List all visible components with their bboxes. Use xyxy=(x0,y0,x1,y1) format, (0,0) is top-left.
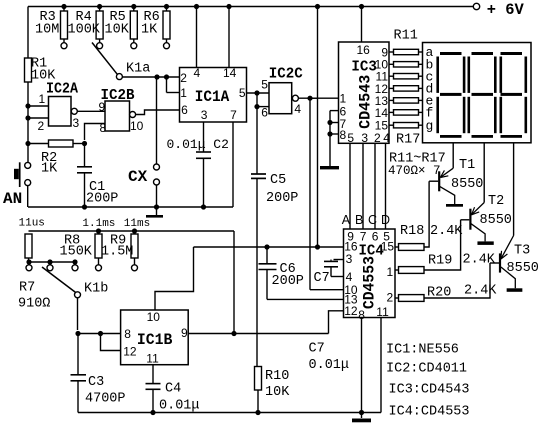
svg-text:IC1B: IC1B xyxy=(137,331,173,349)
svg-text:IC1:NE556: IC1:NE556 xyxy=(386,343,459,358)
svg-text:4700P: 4700P xyxy=(85,392,126,407)
svg-text:K1a: K1a xyxy=(126,62,150,77)
svg-text:8550: 8550 xyxy=(451,177,483,192)
svg-text:A: A xyxy=(342,213,351,227)
svg-text:IC3: IC3 xyxy=(351,59,377,76)
svg-text:8550: 8550 xyxy=(507,261,539,276)
svg-text:9: 9 xyxy=(181,326,188,340)
svg-text:0.01μ: 0.01μ xyxy=(159,399,200,414)
svg-text:11: 11 xyxy=(146,352,159,366)
svg-text:IC3:CD4543: IC3:CD4543 xyxy=(389,383,470,398)
svg-text:3: 3 xyxy=(361,131,368,145)
svg-text:C7: C7 xyxy=(309,342,325,357)
svg-text:15: 15 xyxy=(375,119,389,133)
svg-text:T1: T1 xyxy=(459,158,475,173)
svg-text:IC2A: IC2A xyxy=(46,81,78,98)
svg-text:1.1ms: 1.1ms xyxy=(82,218,115,230)
svg-text:2: 2 xyxy=(387,290,394,304)
svg-text:IC2C: IC2C xyxy=(269,66,303,83)
svg-text:2.4K: 2.4K xyxy=(430,224,463,239)
svg-text:470Ω× 7: 470Ω× 7 xyxy=(388,164,441,178)
svg-text:5: 5 xyxy=(261,78,268,92)
svg-text:2: 2 xyxy=(38,119,45,133)
svg-text:1: 1 xyxy=(340,92,347,106)
svg-text:5: 5 xyxy=(347,131,354,145)
svg-text:11us: 11us xyxy=(19,217,45,229)
svg-text:1K: 1K xyxy=(41,162,58,177)
svg-text:g: g xyxy=(426,118,434,133)
svg-text:6: 6 xyxy=(261,106,268,120)
svg-text:10: 10 xyxy=(147,310,161,324)
svg-text:15: 15 xyxy=(381,239,395,253)
svg-text:R10: R10 xyxy=(265,369,289,384)
svg-text:1: 1 xyxy=(387,265,394,279)
svg-text:C5: C5 xyxy=(270,173,286,188)
svg-text:2: 2 xyxy=(180,71,187,85)
svg-text:C: C xyxy=(368,213,377,227)
svg-text:10K: 10K xyxy=(265,385,290,400)
svg-text:CD4543: CD4543 xyxy=(357,75,375,129)
svg-text:10K: 10K xyxy=(105,23,130,38)
svg-text:910Ω: 910Ω xyxy=(18,297,50,312)
svg-text:10: 10 xyxy=(130,119,144,133)
svg-text:1.5M: 1.5M xyxy=(101,245,133,260)
svg-text:R19: R19 xyxy=(428,254,452,269)
svg-text:C7: C7 xyxy=(314,271,330,286)
svg-text:1: 1 xyxy=(39,92,46,106)
svg-text:2.4K: 2.4K xyxy=(463,253,496,268)
svg-text:R18: R18 xyxy=(400,224,424,239)
svg-text:0.01μ C2: 0.01μ C2 xyxy=(167,137,229,152)
svg-text:C3: C3 xyxy=(88,375,104,390)
svg-text:3: 3 xyxy=(73,116,80,130)
svg-text:7: 7 xyxy=(360,230,367,244)
svg-text:4: 4 xyxy=(383,131,390,145)
svg-text:4: 4 xyxy=(194,66,201,80)
svg-text:3: 3 xyxy=(346,252,353,266)
svg-text:8: 8 xyxy=(340,128,347,142)
svg-text:R17: R17 xyxy=(396,133,420,148)
svg-text:CX: CX xyxy=(128,168,148,186)
svg-text:R7: R7 xyxy=(19,281,35,296)
svg-text:IC4:CD4553: IC4:CD4553 xyxy=(389,405,470,420)
svg-text:16: 16 xyxy=(357,43,371,57)
svg-text:B: B xyxy=(355,213,363,227)
svg-text:2.4K: 2.4K xyxy=(464,284,497,299)
svg-text:T2: T2 xyxy=(488,194,504,209)
svg-text:11: 11 xyxy=(376,305,389,319)
svg-text:CD4553: CD4553 xyxy=(361,256,379,309)
svg-text:1K: 1K xyxy=(141,23,158,38)
svg-text:K1b: K1b xyxy=(84,282,108,297)
svg-text:200P: 200P xyxy=(272,274,304,289)
svg-text:6: 6 xyxy=(181,103,188,117)
svg-text:9: 9 xyxy=(99,100,106,114)
svg-text:5: 5 xyxy=(239,86,246,100)
svg-text:12: 12 xyxy=(123,345,137,359)
svg-text:100K: 100K xyxy=(68,23,101,38)
svg-text:IC2:CD4011: IC2:CD4011 xyxy=(386,362,467,377)
svg-text:10M: 10M xyxy=(35,23,59,38)
svg-text:2: 2 xyxy=(374,131,381,145)
svg-text:8550: 8550 xyxy=(480,213,512,228)
svg-text:3: 3 xyxy=(201,108,208,122)
svg-text:7: 7 xyxy=(230,108,237,122)
svg-text:11ms: 11ms xyxy=(124,218,150,230)
svg-text:C4: C4 xyxy=(165,382,181,397)
svg-text:AN: AN xyxy=(3,190,22,208)
svg-text:12: 12 xyxy=(344,304,358,318)
svg-text:4: 4 xyxy=(294,102,301,116)
svg-text:+ 6V: + 6V xyxy=(487,1,524,19)
svg-text:R20: R20 xyxy=(427,286,451,301)
svg-text:IC2B: IC2B xyxy=(101,87,135,104)
svg-text:8: 8 xyxy=(124,327,131,341)
svg-text:150K: 150K xyxy=(60,245,93,260)
svg-text:200P: 200P xyxy=(86,192,118,207)
svg-text:R11: R11 xyxy=(394,29,418,44)
svg-text:6: 6 xyxy=(372,230,379,244)
svg-text:T3: T3 xyxy=(514,244,530,259)
svg-text:0.01μ: 0.01μ xyxy=(309,358,350,373)
svg-text:D: D xyxy=(381,213,390,227)
svg-text:1: 1 xyxy=(180,86,187,100)
svg-text:IC1A: IC1A xyxy=(195,88,230,106)
svg-text:14: 14 xyxy=(223,66,237,80)
svg-text:200P: 200P xyxy=(266,191,298,206)
